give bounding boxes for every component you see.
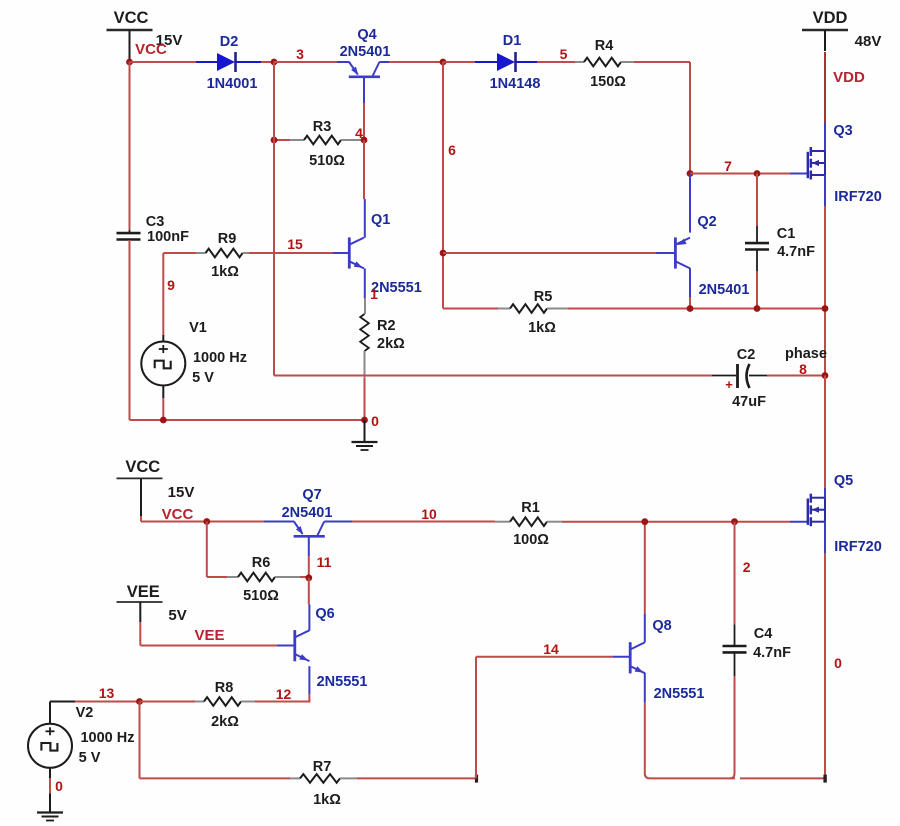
svg-text:Q5: Q5 bbox=[834, 473, 853, 489]
svg-text:2N5401: 2N5401 bbox=[699, 282, 750, 298]
node VCC junction bbox=[126, 59, 133, 66]
svg-text:IRF720: IRF720 bbox=[834, 539, 882, 555]
svg-text:9: 9 bbox=[167, 277, 175, 293]
transistor Q2 (PNP 2N5401) bbox=[674, 237, 677, 268]
svg-text:5 V: 5 V bbox=[192, 370, 214, 386]
wire bottom rail right segment bbox=[740, 777, 825, 779]
source V1 1000Hz 5V bbox=[162, 253, 164, 335]
svg-text:2N5401: 2N5401 bbox=[340, 44, 391, 60]
resistor R1 100ohm bbox=[495, 521, 510, 523]
svg-text:Q1: Q1 bbox=[371, 212, 390, 228]
wire R4 to node 7 (down) bbox=[634, 61, 690, 63]
svg-text:7: 7 bbox=[724, 158, 732, 174]
svg-text:14: 14 bbox=[543, 641, 559, 657]
diode D1 bbox=[497, 53, 515, 71]
wire Q8 emitter down to bottom rail bbox=[644, 673, 646, 703]
node 11 bbox=[305, 574, 312, 581]
transistor Q7 (PNP 2N5401) bbox=[294, 535, 325, 538]
wire Q5 source down (node 0) bbox=[824, 522, 826, 553]
node Q2 collector junction bbox=[687, 305, 694, 312]
wire phase line node 8 bbox=[274, 375, 712, 377]
mosfet Q5 IRF720 bbox=[807, 499, 809, 525]
svg-text:0: 0 bbox=[55, 778, 63, 794]
ground (top section) bbox=[364, 420, 366, 441]
wire node 13 down to R7 row bbox=[139, 702, 141, 779]
capacitor C2 47uF polarized bbox=[712, 375, 736, 377]
node R6 branch bbox=[203, 518, 210, 525]
svg-text:Q3: Q3 bbox=[833, 123, 852, 139]
svg-text:12: 12 bbox=[276, 686, 292, 702]
svg-text:100Ω: 100Ω bbox=[513, 532, 549, 548]
svg-text:8: 8 bbox=[799, 361, 807, 377]
svg-text:47uF: 47uF bbox=[732, 394, 766, 410]
svg-text:2N5551: 2N5551 bbox=[317, 674, 368, 690]
capacitor C4 4.7nF bbox=[734, 522, 736, 625]
wire D2 cathode to node 3 bbox=[236, 61, 261, 63]
transistor Q4 (PNP 2N5401) bbox=[349, 76, 380, 79]
svg-text:V1: V1 bbox=[189, 320, 207, 336]
pin tick at node 14 riser bbox=[475, 775, 478, 783]
capacitor C1 4.7nF bbox=[756, 174, 758, 227]
svg-text:1kΩ: 1kΩ bbox=[528, 320, 556, 336]
node junction C1 top bbox=[754, 170, 761, 177]
svg-text:C4: C4 bbox=[754, 626, 773, 642]
svg-text:+: + bbox=[725, 377, 733, 392]
node at right rail R5 bbox=[822, 305, 829, 312]
svg-text:C1: C1 bbox=[777, 226, 796, 242]
transistor Q8 (NPN 2N5551) bbox=[629, 642, 632, 673]
wire Q7 base to node 11 bbox=[308, 538, 310, 557]
svg-text:3: 3 bbox=[296, 46, 304, 62]
svg-text:VCC: VCC bbox=[114, 9, 149, 27]
svg-text:0: 0 bbox=[834, 655, 842, 671]
wire node 6 vertical bbox=[442, 62, 444, 309]
node C4 branch junction bbox=[731, 518, 738, 525]
node at V1 minus bbox=[160, 417, 167, 424]
svg-text:R5: R5 bbox=[534, 289, 553, 305]
wire ground row (top section) bbox=[130, 419, 365, 421]
wire VCC row to Q7 bbox=[140, 516, 142, 522]
node at R3 left bbox=[271, 137, 278, 144]
node C1 bottom junction bbox=[754, 305, 761, 312]
svg-text:V2: V2 bbox=[76, 705, 94, 721]
svg-text:1kΩ: 1kΩ bbox=[313, 792, 341, 808]
resistor R8 2kohm bbox=[140, 701, 196, 703]
wire Q2 collector down bbox=[689, 268, 691, 297]
svg-text:VCC: VCC bbox=[135, 41, 167, 58]
wire VCC to D2 anode bbox=[130, 61, 197, 63]
svg-text:R3: R3 bbox=[313, 119, 332, 135]
svg-text:R2: R2 bbox=[377, 318, 396, 334]
resistor R2 2kohm bbox=[364, 298, 366, 314]
svg-text:1kΩ: 1kΩ bbox=[211, 264, 239, 280]
svg-text:13: 13 bbox=[99, 685, 115, 701]
wire node 14 riser and row bbox=[475, 657, 477, 779]
svg-text:phase: phase bbox=[785, 346, 827, 362]
node at Q4 collector / node 6 branch bbox=[440, 59, 447, 66]
node 13 junction bbox=[136, 698, 143, 705]
wire into Q8 base bbox=[613, 656, 629, 658]
resistor R9 1kohm bbox=[163, 252, 196, 254]
svg-text:Q2: Q2 bbox=[697, 214, 716, 230]
resistor R5 1kohm bbox=[443, 308, 498, 310]
svg-text:100nF: 100nF bbox=[147, 229, 189, 245]
pin tick at Q5 source bottom bbox=[823, 775, 826, 783]
svg-text:5: 5 bbox=[560, 46, 568, 62]
svg-text:VDD: VDD bbox=[833, 69, 865, 86]
svg-text:5 V: 5 V bbox=[79, 750, 101, 766]
svg-text:150Ω: 150Ω bbox=[590, 74, 626, 90]
wire Q7 collector to R1 (node 10) bbox=[324, 521, 352, 523]
resistor R6 510ohm bbox=[206, 522, 208, 578]
wire Q4 base to node 4 bbox=[363, 78, 365, 103]
svg-text:0: 0 bbox=[371, 413, 379, 429]
wire node 4 to Q1 collector bbox=[363, 140, 365, 199]
node at Q2 base branch bbox=[440, 250, 447, 257]
svg-text:1N4001: 1N4001 bbox=[207, 76, 258, 92]
wire Q4 collector to node 6 junction bbox=[379, 61, 389, 63]
svg-text:4: 4 bbox=[355, 125, 363, 141]
svg-text:2: 2 bbox=[743, 559, 751, 575]
wire node 3 to Q4 emitter bbox=[274, 61, 337, 63]
node 4 bbox=[361, 137, 368, 144]
svg-text:2N5401: 2N5401 bbox=[282, 505, 333, 521]
svg-text:510Ω: 510Ω bbox=[243, 588, 279, 604]
wire Q2 emitter up to node 7 bbox=[689, 174, 691, 233]
ground (bottom) bbox=[37, 811, 63, 813]
wire VDD to Q3 drain bbox=[824, 52, 826, 123]
svg-text:Q6: Q6 bbox=[315, 606, 334, 622]
wire to D1 anode bbox=[443, 61, 475, 63]
svg-text:IRF720: IRF720 bbox=[834, 189, 882, 205]
wire node 13 row to R8 bbox=[75, 701, 140, 703]
svg-text:4.7nF: 4.7nF bbox=[753, 645, 791, 661]
wire D1 cathode to R4 bbox=[516, 61, 537, 63]
svg-text:VEE: VEE bbox=[194, 627, 224, 644]
svg-text:6: 6 bbox=[448, 142, 456, 158]
svg-text:R1: R1 bbox=[521, 500, 540, 516]
svg-text:VCC: VCC bbox=[162, 506, 194, 523]
svg-text:4.7nF: 4.7nF bbox=[777, 244, 815, 260]
node 3 bbox=[271, 59, 278, 66]
svg-text:R8: R8 bbox=[215, 680, 234, 696]
wire Q3 source down bbox=[824, 175, 826, 206]
source V2 1000Hz 5V bbox=[49, 702, 51, 725]
wire Q5 drain up to phase bbox=[824, 376, 826, 489]
transistor Q1 (NPN 2N5551) bbox=[348, 237, 351, 268]
svg-text:R4: R4 bbox=[595, 38, 614, 54]
svg-text:1000 Hz: 1000 Hz bbox=[80, 730, 134, 746]
svg-text:Q8: Q8 bbox=[652, 618, 671, 634]
svg-text:Q4: Q4 bbox=[357, 27, 376, 43]
node 7 junction bbox=[687, 170, 694, 177]
node Q8 collector junction bbox=[641, 518, 648, 525]
svg-text:2kΩ: 2kΩ bbox=[211, 714, 239, 730]
svg-text:VCC: VCC bbox=[125, 458, 160, 476]
svg-text:Q7: Q7 bbox=[302, 487, 321, 503]
wire node 7 to Q3 gate bbox=[690, 173, 790, 175]
wire node 15 R9 to Q1 base bbox=[249, 252, 333, 254]
svg-text:C2: C2 bbox=[737, 347, 756, 363]
svg-text:10: 10 bbox=[421, 506, 437, 522]
svg-text:15V: 15V bbox=[168, 484, 195, 501]
wire V2 minus to ground bbox=[49, 767, 51, 778]
wire Q6 emitter to node 12 bbox=[308, 666, 310, 694]
svg-text:1N4148: 1N4148 bbox=[490, 76, 541, 92]
svg-text:11: 11 bbox=[317, 554, 332, 570]
wire node 11 to Q6 collector bbox=[308, 578, 310, 605]
svg-text:1000 Hz: 1000 Hz bbox=[193, 350, 247, 366]
svg-text:1: 1 bbox=[370, 286, 378, 302]
wire Q1 emitter to R2 bbox=[364, 268, 366, 298]
svg-text:15: 15 bbox=[287, 236, 303, 252]
svg-text:R7: R7 bbox=[313, 759, 332, 775]
svg-text:48V: 48V bbox=[855, 33, 882, 50]
wire to Q5 gate bbox=[790, 521, 809, 523]
svg-text:5V: 5V bbox=[168, 607, 186, 624]
resistor R7 1kohm bbox=[290, 777, 300, 779]
diode D2 bbox=[217, 53, 235, 71]
resistor R4 150ohm bbox=[575, 61, 584, 63]
svg-text:R9: R9 bbox=[218, 231, 237, 247]
wire Q2 base bbox=[443, 252, 656, 254]
svg-text:2N5551: 2N5551 bbox=[371, 280, 422, 296]
capacitor C3 100nF bbox=[129, 62, 131, 230]
svg-text:VDD: VDD bbox=[813, 9, 848, 27]
wire VEE to Q6 base bbox=[139, 622, 141, 646]
svg-text:D2: D2 bbox=[220, 34, 239, 50]
svg-text:C3: C3 bbox=[146, 214, 165, 230]
svg-text:2N5551: 2N5551 bbox=[654, 686, 705, 702]
svg-text:510Ω: 510Ω bbox=[309, 153, 345, 169]
transistor Q6 (NPN 2N5551) bbox=[293, 630, 296, 661]
mosfet Q3 IRF720 bbox=[807, 152, 809, 178]
resistor R3 510ohm bbox=[274, 139, 290, 141]
wire node3 vertical to phase line bbox=[273, 62, 275, 376]
node 0 (top) bbox=[361, 417, 368, 424]
svg-text:R6: R6 bbox=[252, 555, 271, 571]
svg-text:D1: D1 bbox=[503, 33, 522, 49]
wire Q8 collector up to R1 row bbox=[644, 613, 646, 642]
svg-text:2kΩ: 2kΩ bbox=[377, 336, 405, 352]
svg-text:VEE: VEE bbox=[127, 583, 160, 601]
